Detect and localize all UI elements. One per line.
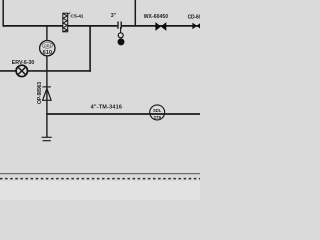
svg-text:WX-60450: WX-60450 xyxy=(144,14,169,20)
wire: top vertical riser at x=135 xyxy=(134,0,136,27)
valve ERV-6-30 (crossed circle) xyxy=(16,65,27,76)
flange pair with spectacle blind, 3" xyxy=(111,13,125,46)
wire: main header line left segment xyxy=(3,25,118,27)
node: line termination (double dash) xyxy=(42,136,52,138)
wire: 4"-TM-3416 line xyxy=(46,113,200,115)
wire: ERV horizontal line xyxy=(0,70,91,72)
svg-text:610: 610 xyxy=(43,50,52,56)
component CS-41 (inline strainer) xyxy=(63,13,84,32)
wire: vertical line from bubble down through relief valve to termination xyxy=(46,56,48,137)
valve WX-60450 (gate valve, filled) xyxy=(155,22,161,31)
svg-text:CD-60: CD-60 xyxy=(188,15,200,21)
relief valve OP-98963 (triangle) xyxy=(42,87,51,100)
svg-text:CS-41: CS-41 xyxy=(70,13,83,19)
valve CD-60 (at right edge, partially visible) xyxy=(192,23,197,30)
border: dashed boundary line xyxy=(0,178,200,180)
instrument bubble SDL-279 xyxy=(150,105,165,120)
wire: branch down to ORI-610 bubble xyxy=(46,26,48,41)
svg-text:279: 279 xyxy=(153,115,161,120)
border: solid match line xyxy=(0,173,200,175)
lighter strip below dashed border xyxy=(0,181,200,200)
svg-text:ORI: ORI xyxy=(44,43,51,48)
wire: vertical drop from header to ERV line xyxy=(89,26,91,72)
svg-text:4"-TM-3416: 4"-TM-3416 xyxy=(91,105,123,111)
instrument bubble ORI-610 xyxy=(40,41,55,57)
wire: main header line right segment xyxy=(122,25,200,27)
svg-text:SDL: SDL xyxy=(153,108,162,113)
wire: top-left vertical riser xyxy=(2,0,4,27)
svg-text:3": 3" xyxy=(111,13,117,19)
svg-text:ERV-6-30: ERV-6-30 xyxy=(12,60,35,66)
